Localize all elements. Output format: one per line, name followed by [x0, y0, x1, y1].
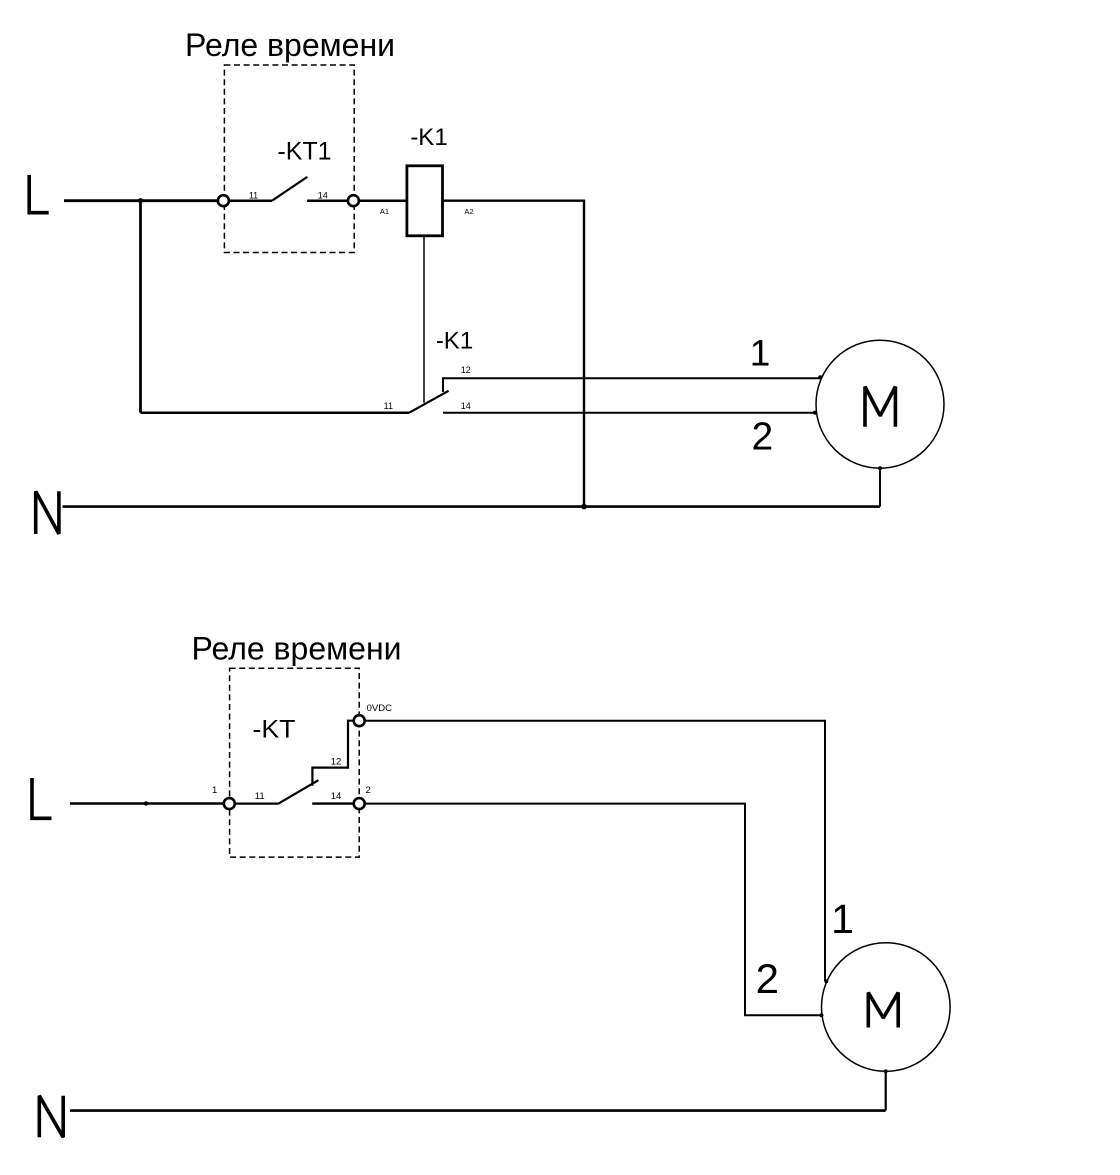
svg-text:11: 11	[384, 401, 393, 411]
svg-text:-K1: -K1	[436, 327, 473, 354]
svg-text:12: 12	[461, 365, 471, 375]
svg-text:11: 11	[255, 791, 265, 802]
svg-text:Реле времени: Реле времени	[185, 27, 395, 63]
svg-text:A1: A1	[380, 207, 389, 216]
svg-text:2: 2	[366, 785, 371, 796]
svg-text:14: 14	[461, 401, 471, 411]
svg-text:12: 12	[331, 756, 342, 767]
svg-text:Реле времени: Реле времени	[192, 631, 402, 667]
svg-text:1: 1	[212, 785, 217, 796]
svg-text:-KT1: -KT1	[277, 138, 331, 166]
svg-text:2: 2	[756, 955, 779, 1002]
svg-text:1: 1	[831, 896, 854, 942]
svg-text:2: 2	[752, 416, 774, 459]
svg-text:1: 1	[750, 332, 771, 373]
svg-text:0VDC: 0VDC	[367, 703, 392, 714]
svg-text:11: 11	[249, 190, 258, 200]
svg-text:14: 14	[331, 791, 342, 802]
svg-text:-K1: -K1	[410, 124, 447, 151]
svg-text:A2: A2	[464, 207, 473, 216]
svg-text:-KT: -KT	[253, 715, 296, 743]
svg-text:14: 14	[318, 190, 328, 200]
